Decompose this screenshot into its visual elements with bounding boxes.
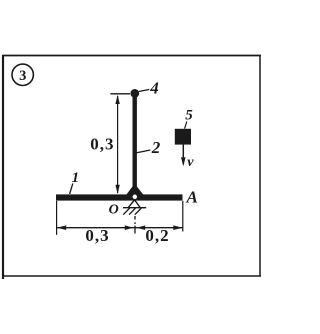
svg-text:4: 4 [149, 78, 159, 97]
ball 4 at rod top [130, 89, 139, 98]
rod 2 (vertical) [133, 91, 137, 195]
beam 1 (horizontal bar) [56, 194, 183, 200]
frame top border [3, 55, 262, 57]
left extension line [56, 201, 58, 235]
ground hatching stroke 2 [129, 208, 136, 215]
centerline crossing segment [134, 226, 136, 234]
bottom dimension line [57, 227, 183, 229]
problem number circle [12, 64, 33, 85]
velocity arrowhead [181, 157, 186, 166]
pivot circle at O [132, 194, 138, 200]
ground hatching stroke 3 [135, 208, 142, 215]
support ground line [123, 207, 146, 209]
support triangle [128, 200, 140, 208]
dimension arrowhead left end [57, 225, 66, 230]
ground hatching stroke 1 [123, 208, 130, 215]
dimension arrowhead right of centre [125, 225, 134, 230]
centerline dash 2 [134, 222, 136, 224]
svg-text:0,2: 0,2 [145, 226, 169, 245]
label 1 leader [70, 184, 73, 195]
label 5 leader [185, 122, 187, 129]
centerline dash 1 [134, 216, 136, 220]
velocity arrow shaft [182, 144, 184, 164]
svg-text:2: 2 [151, 138, 161, 157]
frame right border [259, 56, 261, 277]
svg-text:0,3: 0,3 [85, 226, 109, 245]
dimension arrowhead right end [173, 225, 182, 230]
vertical dimension down arrowhead [115, 185, 119, 194]
frame left border [2, 55, 4, 279]
dimension arrowhead left of centre [137, 225, 146, 230]
frame bottom border [2, 275, 261, 277]
vertical dimension line [117, 96, 119, 193]
svg-text:A: A [186, 188, 198, 207]
svg-text:0,3: 0,3 [90, 135, 114, 154]
label 4 leader [139, 89, 150, 91]
svg-text:v: v [187, 155, 194, 170]
right extension line [182, 201, 184, 232]
svg-text:O: O [109, 203, 119, 218]
vertical dimension up arrowhead [115, 95, 119, 104]
block 5 (square) [175, 129, 191, 145]
vertical dimension top tick [110, 93, 130, 95]
svg-text:3: 3 [19, 68, 26, 84]
label 2 leader [137, 150, 151, 153]
rod base gusset [126, 187, 143, 195]
svg-text:5: 5 [185, 108, 193, 124]
